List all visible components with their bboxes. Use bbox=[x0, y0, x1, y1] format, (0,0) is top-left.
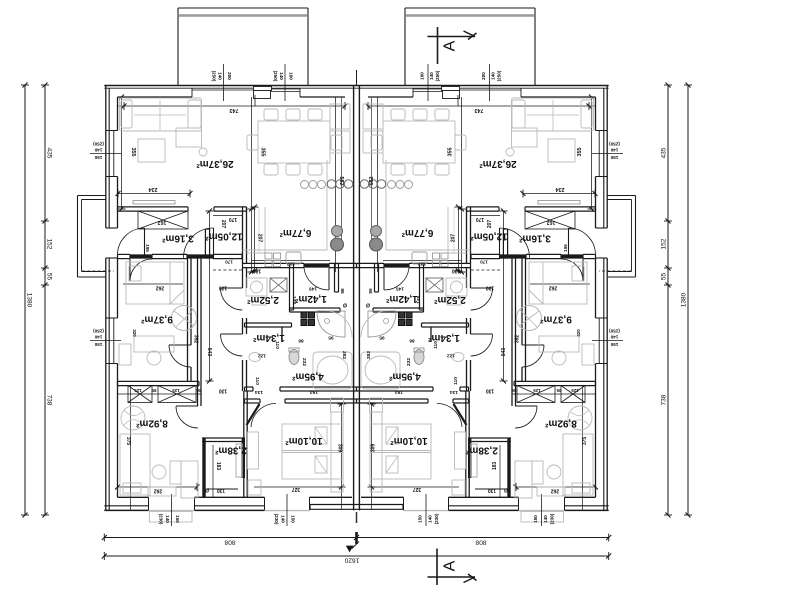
svg-text:26,37m²: 26,37m² bbox=[196, 158, 234, 169]
svg-text:543: 543 bbox=[501, 348, 507, 357]
internal dim line 355/562 middle bbox=[251, 97, 253, 272]
svg-text:170: 170 bbox=[225, 259, 233, 264]
svg-text:6,77m²: 6,77m² bbox=[279, 227, 311, 238]
svg-text:4,95m²: 4,95m² bbox=[291, 371, 323, 382]
entry door leaf and swing bbox=[144, 228, 146, 258]
svg-text:140: 140 bbox=[165, 515, 170, 523]
svg-text:6,77m²: 6,77m² bbox=[401, 227, 433, 238]
svg-text:195: 195 bbox=[145, 244, 150, 252]
svg-text:110: 110 bbox=[453, 377, 459, 385]
svg-text:262: 262 bbox=[156, 284, 165, 290]
svg-text:140: 140 bbox=[279, 72, 284, 80]
bottom wall window W3 jambs and sill bbox=[148, 497, 150, 510]
living coffee table bbox=[138, 139, 165, 162]
entry door jambs bbox=[106, 227, 118, 229]
svg-text:170: 170 bbox=[476, 216, 485, 222]
lintel dashed line over entry zone bbox=[82, 270, 114, 272]
svg-text:162: 162 bbox=[158, 219, 167, 225]
svg-text:207: 207 bbox=[220, 220, 226, 229]
svg-text:140: 140 bbox=[610, 334, 618, 339]
section mark top: stem bbox=[437, 27, 439, 64]
kitchen stove grid bbox=[265, 253, 272, 259]
exterior left wall outer lines bbox=[105, 86, 107, 229]
svg-text:100: 100 bbox=[289, 72, 294, 80]
svg-text:1380: 1380 bbox=[26, 293, 33, 308]
storage shelf bbox=[236, 444, 243, 477]
corridor left wall bbox=[197, 259, 199, 407]
svg-text:110: 110 bbox=[433, 341, 439, 349]
corridor right wall / kitchen left wall V4 bbox=[242, 207, 244, 264]
svg-text:134: 134 bbox=[255, 389, 263, 395]
svg-text:12,05m²: 12,05m² bbox=[470, 231, 508, 242]
dining chairs top bbox=[264, 109, 278, 120]
wall below bedroom1 H3 bbox=[118, 380, 200, 382]
kitchen small sink bottom bbox=[286, 252, 301, 264]
section mark top: arrowhead bbox=[464, 31, 476, 37]
bath252-wc partition bbox=[289, 264, 291, 311]
svg-text:130: 130 bbox=[488, 487, 497, 493]
svg-text:150: 150 bbox=[418, 515, 423, 523]
svg-text:435: 435 bbox=[661, 147, 668, 158]
svg-text:(230): (230) bbox=[159, 514, 164, 525]
bedroom3 wardrobe top bbox=[331, 398, 344, 412]
internal dim line 207 kitchen bbox=[254, 207, 256, 271]
exterior bottom wall outer lines bbox=[104, 509, 148, 511]
svg-text:355: 355 bbox=[448, 148, 454, 157]
svg-text:193: 193 bbox=[310, 389, 318, 395]
svg-text:122: 122 bbox=[447, 352, 455, 358]
svg-text:562: 562 bbox=[338, 177, 344, 186]
living plant bbox=[199, 148, 207, 156]
storage right wall solid bbox=[242, 438, 245, 478]
svg-text:392: 392 bbox=[515, 335, 521, 344]
svg-text:125: 125 bbox=[533, 388, 541, 393]
kitchen counter bottom edge bbox=[243, 249, 328, 251]
svg-text:392: 392 bbox=[193, 335, 199, 344]
svg-text:(250): (250) bbox=[93, 328, 104, 333]
svg-text:12,05m²: 12,05m² bbox=[205, 231, 243, 242]
svg-text:95: 95 bbox=[379, 334, 385, 340]
hall134 right wall bbox=[281, 327, 283, 342]
svg-text:Ø: Ø bbox=[205, 486, 209, 492]
bottom wall window W4 jambs and sill bbox=[264, 497, 266, 510]
internal dim storage 183 bbox=[212, 445, 214, 497]
svg-text:140: 140 bbox=[543, 515, 548, 523]
hall134 door leaf and swing bbox=[221, 333, 243, 335]
dining table bbox=[258, 121, 330, 163]
wc toilet bbox=[289, 350, 299, 365]
svg-text:2,38m²: 2,38m² bbox=[214, 445, 246, 456]
svg-text:170: 170 bbox=[480, 259, 488, 264]
svg-text:207: 207 bbox=[257, 234, 263, 243]
svg-text:309: 309 bbox=[371, 444, 377, 453]
internal dim bedroom2 375 bbox=[130, 385, 132, 510]
exterior left wall inner face bbox=[117, 97, 119, 131]
living sofa L-shape bbox=[120, 98, 202, 131]
svg-text:86: 86 bbox=[409, 337, 415, 343]
kitchen sink dark bbox=[332, 226, 343, 237]
svg-text:1620: 1620 bbox=[344, 556, 359, 563]
bedroom1 door threshold bbox=[130, 254, 152, 258]
svg-text:(230): (230) bbox=[274, 514, 279, 525]
bedroom3 twin beds bbox=[282, 424, 343, 479]
svg-text:2,38m²: 2,38m² bbox=[465, 445, 497, 456]
top wall window sill lines bbox=[271, 88, 300, 90]
svg-text:(250): (250) bbox=[435, 70, 440, 81]
left wall window W2 jambs and pane bbox=[106, 317, 118, 319]
svg-text:(230): (230) bbox=[550, 513, 555, 524]
svg-text:232: 232 bbox=[406, 358, 412, 366]
svg-text:262: 262 bbox=[154, 487, 163, 493]
terrace top-left edge band bbox=[179, 14, 307, 17]
svg-text:375: 375 bbox=[125, 437, 131, 446]
svg-text:170: 170 bbox=[229, 216, 238, 222]
svg-text:(250): (250) bbox=[609, 141, 620, 146]
bottom dim line 808+808 bbox=[104, 537, 608, 539]
svg-text:125: 125 bbox=[134, 388, 142, 393]
exterior top wall outer lines bbox=[104, 85, 356, 87]
bedroom1 bed bbox=[126, 262, 184, 304]
bottom wall window dim ticks bbox=[171, 494, 173, 526]
kitchen counter right edge bbox=[326, 160, 328, 250]
svg-text:207: 207 bbox=[487, 220, 493, 229]
svg-text:125: 125 bbox=[172, 388, 180, 393]
exterior bottom wall inner face bbox=[118, 496, 149, 498]
entry porch outer frame bbox=[78, 195, 106, 197]
entry porch inner frame bbox=[82, 199, 106, 201]
bath495 tub bbox=[313, 352, 352, 389]
internal dim bedroom3 309 line bbox=[341, 404, 343, 510]
svg-text:738: 738 bbox=[46, 395, 53, 406]
section mark bottom: arrow line bbox=[428, 576, 476, 578]
bedroom2 door leaf and swing bbox=[176, 405, 198, 407]
svg-text:130: 130 bbox=[217, 487, 226, 493]
svg-text:A: A bbox=[442, 40, 459, 51]
svg-text:2,52m²: 2,52m² bbox=[433, 294, 465, 305]
svg-text:543: 543 bbox=[206, 348, 212, 357]
svg-text:150: 150 bbox=[94, 342, 102, 347]
internal dim line 234 shelf bbox=[118, 193, 190, 195]
svg-text:262: 262 bbox=[549, 284, 558, 290]
svg-text:(250): (250) bbox=[212, 71, 217, 82]
bedroom1 right wall V3 bbox=[187, 259, 189, 382]
svg-text:152: 152 bbox=[661, 238, 668, 249]
svg-text:86: 86 bbox=[339, 288, 345, 294]
svg-text:95: 95 bbox=[556, 388, 561, 393]
svg-text:95: 95 bbox=[151, 388, 156, 393]
closet wardrobe crossbox 162 bbox=[138, 211, 188, 229]
wc right wall bbox=[334, 264, 336, 293]
internal dim bedroom1 262 bbox=[123, 283, 183, 285]
svg-text:145: 145 bbox=[309, 285, 317, 291]
party wall centerline below building bbox=[356, 512, 358, 523]
svg-text:(230): (230) bbox=[434, 513, 439, 524]
top wall terrace-door sill line bbox=[192, 89, 253, 91]
svg-text:Ø: Ø bbox=[366, 301, 370, 307]
svg-text:193: 193 bbox=[395, 389, 403, 395]
svg-text:738: 738 bbox=[661, 394, 668, 405]
bedroom3 left wall bbox=[243, 391, 245, 497]
section small arrow bottom center bbox=[347, 546, 354, 552]
dining chairs bottom bbox=[264, 164, 278, 175]
svg-text:(250): (250) bbox=[273, 71, 278, 82]
svg-text:355: 355 bbox=[260, 148, 266, 157]
storage top wall bbox=[202, 437, 245, 439]
kitchen hob circles bbox=[327, 180, 336, 189]
svg-text:110: 110 bbox=[254, 377, 260, 385]
svg-text:150: 150 bbox=[94, 155, 102, 160]
bedroom1 door2 leaf and swing bbox=[169, 344, 191, 346]
party wall left leaf bbox=[353, 86, 355, 511]
terrace top-left outline bbox=[178, 7, 308, 9]
storage door threshold bbox=[206, 488, 238, 490]
svg-text:743: 743 bbox=[230, 107, 239, 113]
svg-text:Ø: Ø bbox=[504, 486, 508, 492]
svg-text:86: 86 bbox=[196, 388, 201, 393]
hall door threshold bbox=[187, 254, 213, 258]
svg-text:140: 140 bbox=[491, 72, 496, 80]
hall134/bath495 bottom wall bbox=[245, 386, 254, 388]
svg-text:130: 130 bbox=[219, 284, 228, 290]
svg-text:262: 262 bbox=[551, 487, 560, 493]
svg-text:9,37m²: 9,37m² bbox=[539, 314, 571, 325]
bath252 door leaf and swing bbox=[221, 287, 243, 289]
svg-text:86: 86 bbox=[511, 388, 516, 393]
section mark top: arrow line bbox=[428, 36, 476, 38]
internal dim hallway 170 bbox=[213, 215, 242, 217]
exterior top wall inner face bbox=[118, 96, 193, 98]
svg-text:1,42m²: 1,42m² bbox=[385, 293, 417, 304]
bottom wall window W3 outside sill box bbox=[150, 512, 193, 523]
bath495 shower tray bbox=[317, 311, 345, 337]
bedroom3 left wardrobe bbox=[248, 432, 259, 469]
svg-text:(250): (250) bbox=[609, 328, 620, 333]
svg-text:282: 282 bbox=[341, 351, 347, 359]
left wall window W1 center tick bbox=[90, 153, 121, 155]
hall basin bbox=[249, 353, 261, 362]
interior wall H2 below closet/hall bbox=[118, 253, 131, 255]
svg-text:1380: 1380 bbox=[681, 292, 688, 307]
svg-text:122: 122 bbox=[258, 352, 266, 358]
top wall dimension ticks for openings bbox=[223, 64, 225, 101]
closet door leaf and swing bbox=[213, 228, 215, 258]
internal dim corridor 543 bbox=[209, 211, 211, 381]
wc bottom wall bbox=[290, 307, 341, 309]
svg-text:26,37m²: 26,37m² bbox=[479, 158, 517, 169]
svg-text:200: 200 bbox=[481, 72, 486, 80]
svg-text:320: 320 bbox=[576, 329, 581, 337]
svg-text:148: 148 bbox=[416, 296, 422, 304]
top wall mullion pier bbox=[254, 87, 272, 91]
svg-text:8,92m²: 8,92m² bbox=[544, 418, 576, 429]
internal dim kitchen 327 line bbox=[251, 260, 330, 262]
svg-text:(250): (250) bbox=[497, 70, 502, 81]
svg-text:327: 327 bbox=[287, 260, 295, 266]
bedroom2 wardrobe crossboxes bbox=[128, 386, 152, 403]
svg-text:95: 95 bbox=[328, 334, 334, 340]
internal dim line 743 bbox=[118, 105, 346, 107]
svg-text:110: 110 bbox=[274, 341, 280, 349]
bedroom1 door leaf and swing bbox=[129, 259, 131, 281]
internal dim bedroom2 wardrobe line bbox=[118, 393, 202, 395]
svg-text:375: 375 bbox=[582, 437, 588, 446]
svg-text:134: 134 bbox=[450, 389, 458, 395]
bed3 door leaf and swing bbox=[247, 404, 260, 425]
svg-text:130: 130 bbox=[452, 267, 461, 273]
svg-text:10,10m²: 10,10m² bbox=[285, 435, 323, 446]
svg-text:140: 140 bbox=[94, 147, 102, 152]
svg-text:207: 207 bbox=[451, 234, 457, 243]
svg-text:150: 150 bbox=[291, 515, 296, 523]
svg-text:808: 808 bbox=[475, 538, 486, 545]
bedroom2 crib bbox=[121, 406, 145, 430]
section mark bottom: arrowhead bbox=[464, 577, 476, 583]
round table bedroom1 bbox=[172, 306, 197, 331]
svg-text:140: 140 bbox=[94, 334, 102, 339]
right half (mirrored) bbox=[357, 8, 693, 526]
bottom overall dim line 1620 bbox=[104, 555, 608, 557]
kitchen counter left bbox=[264, 207, 266, 253]
svg-text:(250): (250) bbox=[93, 141, 104, 146]
svg-text:320: 320 bbox=[132, 329, 137, 337]
section mark bottom: stem bbox=[436, 549, 438, 586]
living sideboard bbox=[133, 201, 175, 205]
svg-text:130: 130 bbox=[486, 387, 495, 393]
left wall window W1 jambs and pane bbox=[106, 130, 118, 132]
internal dim line 355 left bbox=[121, 97, 123, 209]
svg-text:140: 140 bbox=[429, 72, 434, 80]
svg-text:234: 234 bbox=[149, 186, 158, 192]
svg-text:145: 145 bbox=[396, 285, 404, 291]
svg-text:100: 100 bbox=[420, 72, 425, 80]
svg-text:A: A bbox=[442, 560, 459, 571]
svg-text:8,92m²: 8,92m² bbox=[135, 418, 167, 429]
svg-text:55: 55 bbox=[46, 273, 53, 281]
svg-text:327: 327 bbox=[413, 486, 422, 492]
closet-hall partition stub bbox=[204, 229, 206, 258]
kitchen bottom wall bbox=[243, 262, 305, 264]
svg-text:808: 808 bbox=[224, 538, 235, 545]
bedroom2 bed bbox=[120, 434, 150, 495]
svg-text:152: 152 bbox=[46, 239, 53, 250]
bedroom2 desk chair shelf bbox=[170, 461, 181, 484]
rear center step half bbox=[310, 505, 357, 510]
svg-text:183: 183 bbox=[492, 462, 498, 471]
svg-text:355: 355 bbox=[130, 148, 136, 157]
internal dim line 562 kitchen bbox=[335, 97, 337, 272]
svg-text:125: 125 bbox=[571, 388, 579, 393]
svg-text:3,16m²: 3,16m² bbox=[161, 233, 193, 244]
text labels layer bbox=[26, 40, 688, 571]
svg-text:9,37m²: 9,37m² bbox=[140, 314, 172, 325]
svg-text:86: 86 bbox=[298, 337, 304, 343]
svg-text:195: 195 bbox=[563, 244, 568, 252]
svg-text:282: 282 bbox=[366, 351, 372, 359]
bedroom3 headboard strip bbox=[331, 412, 343, 492]
bedroom3 top wall (double) bbox=[245, 398, 261, 400]
svg-text:327: 327 bbox=[418, 260, 426, 266]
left outer dim line chain 435-152-55-738 bbox=[44, 85, 46, 515]
svg-text:309: 309 bbox=[337, 444, 343, 453]
svg-text:1,34m²: 1,34m² bbox=[252, 332, 284, 343]
bath252 washer bbox=[246, 278, 267, 296]
bedroom3 dresser bbox=[248, 480, 261, 495]
svg-text:562: 562 bbox=[369, 177, 375, 186]
svg-text:234: 234 bbox=[556, 186, 565, 192]
svg-text:140: 140 bbox=[218, 72, 223, 80]
svg-text:183: 183 bbox=[215, 462, 221, 471]
svg-text:162: 162 bbox=[547, 219, 556, 225]
left wall window W2 center tick bbox=[90, 340, 121, 342]
svg-text:3,16m²: 3,16m² bbox=[518, 233, 550, 244]
svg-text:Ø: Ø bbox=[343, 301, 347, 307]
svg-text:435: 435 bbox=[46, 148, 53, 159]
svg-text:55: 55 bbox=[661, 273, 668, 281]
internal dim bedroom3 327 bbox=[254, 486, 345, 488]
svg-text:150: 150 bbox=[533, 515, 538, 523]
svg-text:4,95m²: 4,95m² bbox=[388, 371, 420, 382]
kitchen tall cabinets along party wall bbox=[330, 104, 350, 129]
bath252 boiler crossbox bbox=[270, 278, 287, 292]
svg-text:130: 130 bbox=[486, 284, 495, 290]
svg-text:130: 130 bbox=[219, 387, 228, 393]
internal dim bedroom2 262 line bbox=[118, 486, 198, 488]
svg-text:200: 200 bbox=[227, 72, 232, 80]
svg-text:140: 140 bbox=[610, 147, 618, 152]
bedroom1 desk and chair bbox=[134, 336, 174, 352]
svg-text:150: 150 bbox=[610, 155, 618, 160]
svg-text:327: 327 bbox=[292, 486, 301, 492]
svg-text:355: 355 bbox=[577, 148, 583, 157]
party wall centerline above building bbox=[356, 70, 358, 85]
dining chairs sides bbox=[247, 135, 258, 150]
svg-text:148: 148 bbox=[291, 296, 297, 304]
svg-text:743: 743 bbox=[475, 107, 484, 113]
svg-text:150: 150 bbox=[175, 515, 180, 523]
dark floor-drain grid bbox=[301, 312, 307, 318]
svg-text:140: 140 bbox=[428, 515, 433, 523]
svg-text:10,10m²: 10,10m² bbox=[390, 435, 428, 446]
svg-text:86: 86 bbox=[368, 288, 374, 294]
svg-text:2,52m²: 2,52m² bbox=[246, 294, 278, 305]
svg-text:130: 130 bbox=[253, 267, 262, 273]
bath252 sink bbox=[252, 296, 266, 305]
interior wall below living room H1 bbox=[118, 206, 189, 208]
svg-text:1,34m²: 1,34m² bbox=[427, 332, 459, 343]
left overall dim line 1380 bbox=[24, 85, 26, 515]
kitchen door threshold and swing bbox=[304, 263, 329, 267]
kitchen counter front edge line bbox=[341, 97, 343, 250]
bath252 bottom wall bbox=[245, 322, 292, 324]
svg-text:1,42m²: 1,42m² bbox=[294, 293, 326, 304]
storage left wall solid bbox=[202, 438, 205, 497]
svg-text:140: 140 bbox=[281, 515, 286, 523]
section line center tick bottom bbox=[355, 532, 358, 544]
svg-text:150: 150 bbox=[610, 342, 618, 347]
svg-text:232: 232 bbox=[301, 358, 307, 366]
